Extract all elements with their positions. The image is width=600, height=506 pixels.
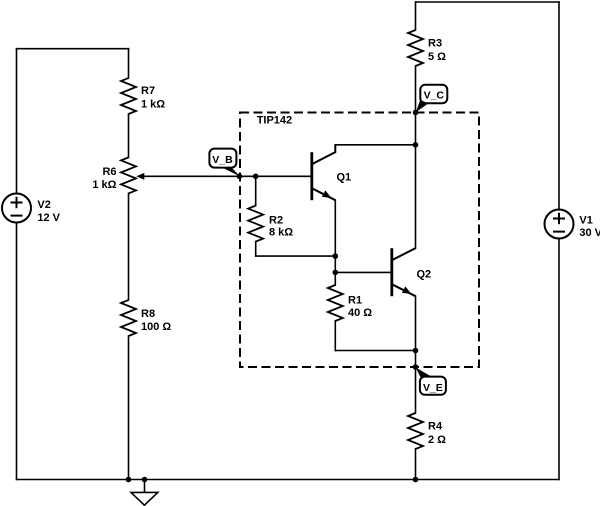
svg-text:R2: R2 xyxy=(269,214,283,226)
wire right vertical lower (V1 to bottom) xyxy=(558,239,560,480)
junction dot Q1 collector xyxy=(413,142,419,148)
wire left vertical lower (V2 to bottom) xyxy=(16,223,18,480)
voltage source V1 30 V xyxy=(545,210,600,239)
svg-text:R7: R7 xyxy=(141,85,155,97)
svg-text:8 kΩ: 8 kΩ xyxy=(269,227,293,239)
ground xyxy=(131,492,158,505)
transistor Q1 xyxy=(312,145,351,200)
wire Q1 collector horizontal xyxy=(335,144,415,146)
svg-text:R4: R4 xyxy=(428,421,443,433)
svg-text:12 V: 12 V xyxy=(37,212,60,224)
junction dot R2 top xyxy=(253,174,259,180)
node V_B xyxy=(209,149,239,177)
svg-text:R6: R6 xyxy=(102,166,116,178)
wire Q2 emitter vertical to R4 xyxy=(415,296,417,413)
wire left vertical upper (to V2) xyxy=(16,49,18,194)
svg-text:V2: V2 xyxy=(37,199,50,211)
wire middle branch top (corner to R7) xyxy=(128,49,130,78)
svg-text:30 V: 30 V xyxy=(579,227,600,239)
wire Q2 base horizontal xyxy=(335,271,392,273)
junction dot R4 bottom xyxy=(413,477,419,483)
svg-text:100 Ω: 100 Ω xyxy=(141,321,171,333)
voltage source V2 12 V xyxy=(2,194,61,224)
wire top to R3 xyxy=(415,2,417,30)
transistor Q2 xyxy=(392,248,431,296)
resistor R4 2 Ohm xyxy=(408,413,446,449)
wire Q1 emitter vertical down to R1 xyxy=(334,200,336,285)
junction dot ground xyxy=(142,477,148,483)
svg-text:40 Ω: 40 Ω xyxy=(348,307,372,319)
resistor R3 5 Ohm xyxy=(408,30,446,66)
resistor R2 8 kOhm xyxy=(248,206,293,242)
wire bottom horizontal xyxy=(17,479,560,481)
dashed box TIP142 xyxy=(240,113,479,368)
wire ground stub xyxy=(144,480,146,493)
wiper arrow of R6 xyxy=(136,173,144,180)
svg-text:R3: R3 xyxy=(428,38,442,50)
node V_C xyxy=(416,85,448,113)
svg-text:2 Ω: 2 Ω xyxy=(428,434,446,446)
svg-text:1 kΩ: 1 kΩ xyxy=(92,179,116,191)
svg-text:V_B: V_B xyxy=(212,154,233,166)
svg-text:V1: V1 xyxy=(579,214,592,226)
wire R2 top drop xyxy=(255,176,257,205)
wire R4 to bottom xyxy=(415,449,417,480)
wire R3 to V_C and collector junction xyxy=(415,66,417,248)
junction dot V_C node xyxy=(413,110,419,116)
resistor R7 1 kOhm xyxy=(121,78,165,114)
junction dot R2 bottom / Q1 emitter xyxy=(333,253,339,259)
resistor R6 1 kOhm (potentiometer) xyxy=(92,157,136,193)
svg-text:TIP142: TIP142 xyxy=(257,114,292,126)
wire V_B horizontal (R6 wiper to Q1 base) xyxy=(142,175,312,177)
svg-text:R8: R8 xyxy=(141,308,155,320)
svg-text:Q2: Q2 xyxy=(417,269,432,281)
wire R2 bottom drop xyxy=(255,242,257,257)
svg-text:Q1: Q1 xyxy=(337,171,352,183)
junction dot V_E node xyxy=(413,364,419,370)
svg-text:5 Ω: 5 Ω xyxy=(428,51,446,63)
svg-text:1 kΩ: 1 kΩ xyxy=(141,98,165,110)
wire R1 bottom drop xyxy=(334,321,336,351)
wire top-left horizontal xyxy=(17,48,129,50)
svg-text:V_E: V_E xyxy=(423,382,443,394)
wire R8 to bottom xyxy=(128,336,130,480)
junction dot V_B node xyxy=(237,174,243,180)
wire R1 bottom horizontal xyxy=(335,350,415,352)
svg-text:V_C: V_C xyxy=(424,90,445,102)
resistor R8 100 Ohm xyxy=(121,300,171,336)
resistor R1 40 Ohm xyxy=(328,285,372,321)
wire right vertical upper (to V1) xyxy=(558,2,560,210)
junction dot Q2 base xyxy=(333,270,339,276)
wire R7 to R6 xyxy=(128,114,130,157)
svg-text:R1: R1 xyxy=(348,295,362,307)
node V_E xyxy=(416,367,446,394)
wire R2 bottom horizontal to emitter xyxy=(256,255,336,257)
junction dot R1 bottom xyxy=(413,348,419,354)
wire top-right horizontal xyxy=(416,1,560,3)
junction dot R8 bottom xyxy=(126,477,132,483)
wire R6 to R8 xyxy=(128,193,130,300)
